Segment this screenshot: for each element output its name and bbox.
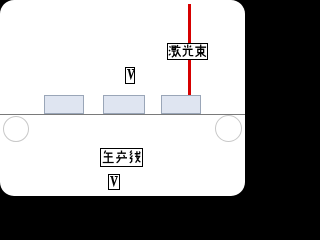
glyph 线: [130, 151, 141, 163]
label 生产线 (production line): [100, 148, 143, 167]
label V (belt speed, above boxes): [125, 67, 135, 84]
right wheel: [215, 115, 242, 142]
label V (bottom): [108, 174, 120, 190]
glyph 生: [103, 151, 114, 163]
glyph 光: [183, 45, 194, 57]
glyph 束: [195, 45, 206, 57]
left wheel: [3, 116, 29, 142]
box 1 on belt: [44, 95, 84, 114]
laser beam (red vertical line): [188, 4, 191, 95]
box 3 on belt: [161, 95, 201, 114]
box 2 on belt: [103, 95, 145, 114]
glyph 激: [169, 45, 181, 57]
label 激光束 (laser beam): [167, 43, 208, 60]
background panel (white rounded paper): [0, 0, 245, 196]
wire: conveyor belt line: [0, 114, 245, 115]
glyph 产: [116, 151, 127, 163]
